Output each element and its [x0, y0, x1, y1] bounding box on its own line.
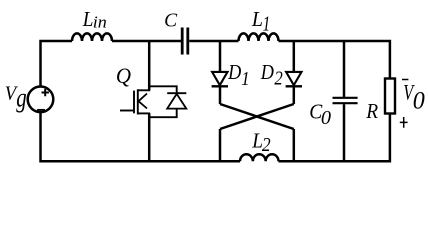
wire bottom rail left segment	[41, 112, 241, 161]
body diode triangle	[167, 94, 186, 109]
label output minus	[402, 79, 408, 81]
svg-text:2: 2	[274, 68, 282, 89]
transistor Q source stub	[138, 112, 150, 114]
wire L2 right vertical	[293, 129, 296, 161]
inductor Lin	[72, 33, 112, 41]
transistor Q gate lead	[120, 110, 134, 112]
wire top rail L1 to right corner	[279, 41, 390, 79]
source minus sign	[37, 109, 45, 111]
svg-text:C: C	[164, 9, 178, 31]
svg-text:L: L	[82, 8, 94, 31]
label output plus	[400, 117, 408, 128]
transistor Q gate bar	[133, 91, 135, 114]
svg-text:in: in	[93, 13, 107, 31]
svg-text:0: 0	[413, 87, 425, 114]
wire top rail left segment	[41, 41, 73, 87]
transistor Q drain stub	[138, 89, 150, 91]
body diode bottom branch	[149, 109, 177, 118]
transistor Q source wire	[148, 113, 151, 161]
capacitor Co bottom wire	[343, 104, 346, 161]
diode D2 triangle	[286, 72, 301, 85]
diode D2 cathode bar	[286, 85, 302, 87]
svg-text:L: L	[251, 9, 263, 32]
transistor Q drain wire	[148, 41, 151, 90]
capacitor C	[182, 28, 188, 55]
resistor R body	[385, 79, 395, 114]
body diode cathode bar	[167, 92, 186, 94]
source plus sign	[42, 89, 49, 96]
svg-text:g: g	[16, 83, 26, 113]
capacitor Co plates	[333, 98, 358, 103]
wire cross D2 to L2 left	[220, 104, 294, 129]
diode D1 triangle	[212, 72, 227, 85]
wire top rail Lin to C	[112, 40, 181, 43]
transistor Q arrow	[139, 94, 148, 109]
transistor Q channel bar	[137, 89, 139, 114]
wire cross D1 to L2 right	[220, 104, 294, 129]
inductor L1	[239, 33, 279, 41]
wire bottom rail right segment	[279, 114, 390, 162]
capacitor Co top wire	[343, 41, 346, 97]
inductor L2	[240, 154, 279, 161]
svg-text:D: D	[260, 60, 275, 84]
diode D1 cathode wire	[219, 86, 222, 104]
svg-text:1: 1	[263, 12, 271, 35]
wire top rail C to L1	[189, 40, 238, 43]
wire L2 left vertical	[219, 129, 222, 161]
svg-text:2: 2	[262, 134, 271, 156]
diode D2 cathode wire	[293, 86, 296, 104]
svg-text:1: 1	[241, 68, 250, 90]
svg-text:0: 0	[321, 107, 331, 129]
diode D2 anode wire	[293, 41, 296, 72]
diode D1 anode wire	[219, 41, 222, 72]
svg-text:D: D	[227, 60, 242, 84]
body diode top branch	[149, 86, 177, 93]
svg-text:R: R	[365, 100, 378, 123]
source Vg circle	[28, 87, 54, 113]
svg-text:Q: Q	[116, 63, 131, 88]
diode D1 cathode bar	[212, 85, 228, 87]
